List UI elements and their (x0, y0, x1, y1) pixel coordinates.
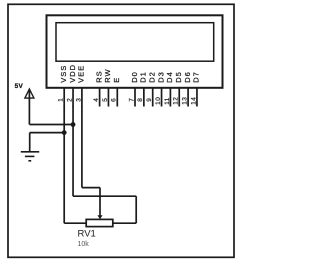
svg-text:13: 13 (182, 97, 189, 105)
pin 12 stub (178, 88, 180, 107)
svg-text:D4: D4 (165, 71, 174, 83)
svg-text:11: 11 (164, 97, 171, 105)
svg-text:VDD: VDD (68, 64, 77, 83)
wire VDD net to pot right (113, 222, 136, 224)
svg-text:D3: D3 (156, 71, 165, 83)
svg-text:3: 3 (75, 98, 82, 102)
power stem wire (28, 90, 30, 125)
pin 7 stub (134, 88, 136, 107)
svg-text:10k: 10k (78, 241, 90, 248)
svg-text:RS: RS (94, 70, 103, 82)
wire VDD net right (73, 195, 136, 197)
svg-text:VEE: VEE (77, 65, 86, 83)
svg-text:10: 10 (155, 97, 162, 105)
svg-text:4: 4 (93, 98, 100, 102)
pin 13 stub (187, 88, 189, 107)
svg-text:9: 9 (146, 98, 153, 102)
pin 1 stub (63, 88, 65, 107)
svg-text:1: 1 (58, 98, 65, 102)
svg-text:D7: D7 (192, 71, 201, 83)
svg-text:D1: D1 (139, 71, 148, 83)
ground symbol (21, 152, 39, 161)
wiper wire down (99, 188, 101, 216)
pin 14 stub (196, 88, 198, 107)
svg-text:RV1: RV1 (78, 228, 96, 239)
svg-text:8: 8 (137, 98, 144, 102)
pin 6 stub (116, 88, 118, 107)
svg-text:7: 7 (128, 98, 135, 102)
svg-text:RW: RW (103, 68, 112, 82)
wiper arrowhead (97, 215, 102, 219)
svg-text:12: 12 (173, 97, 180, 105)
potentiometer RV1 body (86, 219, 113, 226)
pin 2 stub (72, 88, 74, 107)
svg-text:E: E (112, 77, 121, 83)
ground stem (29, 133, 31, 152)
pin 3 stub (81, 88, 83, 107)
svg-text:VSS: VSS (59, 65, 68, 83)
svg-text:5: 5 (102, 98, 109, 102)
junction dot pin2/5V (71, 122, 76, 127)
wire VSS net to pot left (64, 222, 86, 224)
svg-text:6: 6 (111, 98, 118, 102)
wire 5V to pin2 (29, 124, 73, 126)
svg-text:2: 2 (66, 98, 73, 102)
pin 8 stub (143, 88, 145, 107)
wire VDD net pin2 down (72, 106, 74, 196)
wire VEE net pin3 down (81, 106, 83, 188)
pin 11 stub (169, 88, 171, 107)
wire VEE net right to wiper (82, 187, 100, 189)
wire VDD net down (135, 196, 137, 223)
LCD module LCD1 outer body (47, 15, 223, 88)
LCD display window (56, 23, 214, 62)
wire gnd to pin1 (30, 132, 64, 134)
svg-text:D2: D2 (148, 71, 157, 83)
svg-text:5V: 5V (15, 83, 24, 90)
svg-text:14: 14 (190, 97, 197, 105)
pin 10 stub (161, 88, 163, 107)
wire VSS net pin1 down (63, 106, 65, 223)
pin 9 stub (152, 88, 154, 107)
svg-text:D0: D0 (130, 71, 139, 83)
power symbol arrow (25, 89, 34, 98)
svg-text:D6: D6 (183, 71, 192, 83)
svg-text:D5: D5 (174, 71, 183, 83)
sheet border (8, 4, 234, 257)
pin 5 stub (107, 88, 109, 107)
pin 4 stub (99, 88, 101, 107)
junction dot pin1/gnd (62, 130, 67, 135)
